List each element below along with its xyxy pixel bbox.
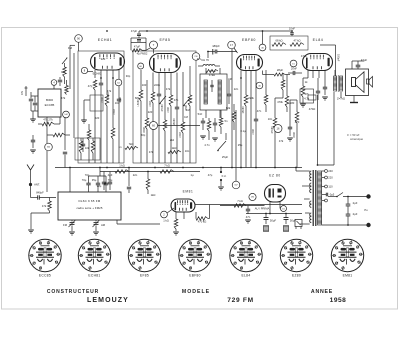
capacitor C19: [356, 65, 361, 67]
svg-text:L503: L503: [149, 101, 152, 107]
resistor R4: [105, 95, 109, 106]
node 90: [75, 35, 83, 43]
IF can boundary ECH81: [78, 51, 124, 163]
svg-text:35µ: 35µ: [92, 178, 97, 182]
svg-text:ECH81: ECH81: [88, 274, 100, 278]
svg-text:47k 27k: 47k 27k: [43, 118, 53, 122]
capacitor C33: [288, 127, 292, 129]
svg-text:47k: 47k: [107, 89, 112, 93]
hatch ground: [284, 226, 289, 232]
svg-text:Pu: Pu: [364, 208, 368, 212]
svg-text:Z=7kΩ: Z=7kΩ: [337, 97, 345, 101]
capacitor C10: [175, 107, 179, 109]
junction: [291, 30, 293, 32]
wire: [31, 95, 38, 97]
antenna junction: [29, 183, 32, 186]
switch S3: [218, 141, 226, 150]
node 304: [45, 143, 53, 151]
node 64: [115, 79, 122, 86]
wire: [252, 201, 254, 206]
svg-text:10n: 10n: [185, 149, 190, 153]
svg-text:47µF: 47µF: [131, 29, 138, 33]
svg-text:1µ: 1µ: [190, 173, 193, 177]
resistor R36: [295, 112, 299, 123]
svg-text:47µ: 47µ: [208, 173, 213, 177]
capacitor C14: [215, 50, 217, 54]
junction: [262, 30, 264, 32]
capacitor C6: [81, 144, 85, 146]
junction: [106, 167, 108, 169]
svg-text:47n: 47n: [257, 109, 262, 113]
resistor R32: [174, 219, 178, 229]
wire: [128, 168, 130, 187]
svg-text:47µF: 47µF: [134, 45, 141, 49]
ground: [218, 187, 224, 190]
wire: [263, 44, 271, 46]
capacitor C15: [254, 119, 258, 121]
wire: [152, 73, 154, 81]
wire: [64, 117, 66, 150]
wire: [207, 52, 209, 59]
resistor R33: [196, 217, 208, 221]
resistor R38: [274, 73, 285, 76]
resistor R42: [132, 49, 142, 52]
svg-text:ECC85: ECC85: [45, 103, 55, 107]
capacitor C31: [227, 94, 231, 96]
svg-text:AU / PRIMA: AU / PRIMA: [255, 207, 270, 211]
svg-text:EM81: EM81: [183, 190, 194, 194]
wire: [240, 71, 242, 79]
svg-text:304: 304: [47, 147, 50, 149]
junction: [255, 167, 257, 169]
resistor R14: [207, 121, 211, 131]
svg-text:L5083: L5083: [137, 99, 140, 107]
resistor R29: [53, 133, 65, 137]
capacitor C3: [58, 80, 62, 82]
capacitor C1: [29, 99, 33, 101]
socket EBF80: [179, 239, 211, 271]
junction: [347, 196, 349, 198]
capacitor C8: [137, 34, 141, 36]
ground: [30, 119, 36, 122]
wire top rail: [139, 30, 292, 32]
svg-text:22n: 22n: [133, 173, 138, 177]
wire: [167, 208, 174, 213]
svg-text:180: 180: [290, 101, 295, 105]
junction: [231, 167, 233, 169]
switch S2: [184, 98, 190, 105]
IF can boundary EF85: [133, 51, 196, 163]
svg-text:47n: 47n: [246, 215, 251, 219]
svg-text:70µ: 70µ: [82, 178, 87, 182]
junction: [285, 213, 287, 215]
junction: [154, 167, 156, 169]
wire: [89, 175, 107, 177]
svg-text:50µF: 50µF: [270, 219, 277, 223]
junction: [112, 77, 114, 79]
wire: [275, 97, 283, 99]
node 16: [274, 125, 282, 133]
ground: [212, 138, 218, 141]
resistor R12: [181, 122, 185, 133]
wire: [250, 71, 252, 79]
mains tap 110: [325, 185, 328, 188]
junction: [147, 171, 149, 173]
resistor R1: [65, 86, 69, 95]
junction: [265, 213, 267, 215]
small box: [90, 95, 103, 111]
junction: [202, 167, 204, 169]
capacitor C29: [346, 204, 351, 206]
tube EL84 V4: [303, 54, 333, 71]
svg-text:L503: L503: [179, 132, 182, 138]
node 15: [290, 60, 297, 67]
wire: [94, 70, 96, 78]
svg-text:7 kΩ: 7 kΩ: [164, 164, 170, 168]
tweeter: [367, 79, 369, 84]
capacitor C17: [293, 71, 295, 75]
capacitor C20: [102, 182, 106, 184]
svg-text:4µ FM52: 4µ FM52: [137, 52, 148, 56]
socket EZ80: [280, 239, 312, 271]
IF transformer T1: [200, 74, 227, 110]
svg-text:47kΩ: 47kΩ: [209, 73, 215, 77]
wire: [279, 202, 281, 209]
svg-text:50p: 50p: [141, 133, 146, 137]
svg-text:180pF: 180pF: [212, 44, 220, 48]
wire main bus: [55, 167, 302, 169]
wire: [262, 31, 264, 44]
svg-text:EL84: EL84: [242, 274, 251, 278]
wire: [73, 53, 75, 138]
svg-text:1n: 1n: [119, 145, 122, 149]
ground: [245, 220, 251, 223]
resistor R17: [264, 95, 268, 105]
ground: [28, 230, 34, 233]
svg-text:L508: L508: [252, 129, 255, 135]
capacitor C18: [316, 91, 320, 93]
wire: [328, 196, 337, 198]
resistor R5: [111, 128, 115, 139]
capacitor C2: [33, 103, 37, 105]
svg-text:7kΩ: 7kΩ: [129, 142, 134, 146]
junction: [69, 167, 71, 169]
svg-text:47µF: 47µF: [361, 58, 368, 62]
winding: [204, 80, 207, 104]
capacitor C16: [290, 33, 294, 35]
svg-text:4708: 4708: [119, 97, 122, 103]
wire: [112, 70, 114, 78]
socket EF85: [128, 239, 160, 271]
mains tap 220: [325, 176, 328, 179]
svg-text:47k: 47k: [305, 92, 310, 96]
junction: [240, 77, 242, 79]
wire: [295, 168, 297, 172]
trimmer CV2: [95, 220, 97, 222]
wire: [31, 212, 50, 214]
tube EM81 V5: [171, 199, 195, 212]
wire: [209, 205, 211, 219]
winding: [218, 80, 221, 104]
wire: [334, 70, 336, 76]
switch S4: [337, 193, 343, 197]
svg-text:4µF: 4µF: [108, 173, 113, 177]
wire: [99, 168, 101, 177]
resistor R16: [244, 95, 248, 106]
wire: [100, 92, 102, 163]
wire: [183, 212, 185, 219]
coupling box: [270, 36, 308, 50]
svg-text:47k: 47k: [61, 96, 66, 100]
wire: [118, 70, 120, 78]
svg-text:47k: 47k: [42, 204, 47, 208]
svg-text:470: 470: [295, 120, 300, 124]
svg-text:1958: 1958: [330, 297, 347, 304]
resistor R7: [139, 90, 143, 101]
resistor R15: [219, 118, 223, 127]
wire: [212, 49, 214, 55]
small box: [308, 95, 316, 100]
speaker HP: [352, 78, 356, 87]
filter cap C27: [264, 218, 269, 220]
svg-text:ANNEE: ANNEE: [311, 289, 333, 295]
speaker box: [346, 69, 369, 96]
node 60a: [138, 63, 144, 69]
resistor R23: [301, 86, 305, 97]
wire: [145, 38, 147, 50]
divider box: [300, 89, 314, 103]
wire: [231, 49, 233, 168]
wire: [317, 95, 319, 165]
svg-text:10n: 10n: [268, 117, 273, 121]
junction: [274, 167, 276, 169]
wire: [312, 71, 314, 79]
wire: [70, 44, 75, 46]
node 17: [228, 41, 236, 49]
junction: [295, 167, 297, 169]
wire: [94, 100, 96, 163]
capacitor C13: [213, 123, 217, 125]
wire: [296, 170, 310, 172]
svg-text:0µ5: 0µ5: [330, 193, 335, 197]
wire: [246, 213, 302, 215]
node 2: [161, 211, 168, 218]
svg-text:L508: L508: [101, 97, 104, 103]
svg-text:2k2: 2k2: [170, 138, 175, 142]
socket EM81: [331, 239, 363, 271]
svg-text:220: 220: [148, 110, 153, 114]
svg-text:1508: 1508: [143, 127, 146, 133]
svg-text:EBF80: EBF80: [189, 274, 201, 278]
tube EZ80 V6: [265, 185, 286, 203]
resistor R28: [42, 122, 54, 126]
svg-text:F.U.: F.U.: [222, 174, 227, 178]
resistor R25: [160, 170, 174, 174]
ground: [81, 120, 87, 123]
socket ECH81: [78, 239, 110, 271]
capacitor C34: [323, 87, 327, 89]
svg-text:CH 79: CH 79: [201, 58, 209, 62]
wire: [53, 85, 55, 89]
filter cap C28: [284, 218, 289, 220]
svg-text:100: 100: [142, 83, 147, 87]
resistor R39: [285, 96, 289, 107]
wire: [130, 38, 132, 50]
node 46b: [256, 82, 263, 89]
svg-text:82k: 82k: [226, 106, 231, 110]
resistor R24: [115, 170, 129, 174]
node 210: [192, 53, 200, 61]
resistor R37: [206, 70, 218, 73]
wire: [46, 151, 48, 192]
wire: [245, 71, 247, 79]
resistor R20: [281, 80, 285, 90]
svg-text:EL84: EL84: [313, 38, 324, 42]
wire: [164, 73, 166, 81]
wire: [106, 70, 108, 78]
svg-text:ANT.: ANT.: [34, 183, 40, 187]
mains tap 0: [325, 199, 328, 202]
svg-text:28µF: 28µF: [277, 68, 284, 72]
capacitor C5: [117, 99, 121, 101]
svg-text:47k: 47k: [279, 139, 284, 143]
svg-text:1508: 1508: [293, 132, 296, 138]
tap cap: [326, 193, 327, 197]
fuse F1: [220, 171, 222, 173]
junction: [146, 30, 148, 32]
wire: [318, 71, 320, 79]
resistor R2: [63, 67, 67, 77]
node 16b: [281, 206, 287, 212]
capacitor C32: [63, 152, 67, 154]
svg-text:47083: 47083: [161, 104, 164, 112]
svg-text:68 kΩ: 68 kΩ: [275, 39, 282, 43]
svg-text:0.1µ: 0.1µ: [240, 129, 246, 133]
svg-text:25µF: 25µF: [222, 155, 229, 159]
hatch ground: [264, 226, 269, 232]
svg-text:110: 110: [328, 185, 333, 189]
svg-text:2µF: 2µF: [353, 201, 358, 205]
wire: [307, 71, 309, 79]
ground: [200, 136, 206, 139]
svg-text:20nF: 20nF: [291, 67, 297, 71]
svg-text:DL6C 9 65 FM: DL6C 9 65 FM: [79, 199, 101, 203]
capacitor C23: [38, 195, 40, 199]
node 7: [150, 41, 158, 49]
svg-text:25µ: 25µ: [238, 143, 243, 147]
svg-text:47n: 47n: [174, 98, 179, 102]
svg-text:220: 220: [101, 57, 106, 61]
FM trimmer arrow: [62, 58, 67, 64]
svg-text:470 kΩ: 470 kΩ: [198, 220, 207, 224]
choke CH79: [203, 65, 215, 67]
mains plug box: [295, 220, 302, 227]
svg-text:10n: 10n: [115, 101, 120, 105]
tube EF85 V2: [150, 54, 181, 73]
svg-text:1 kΩ: 1 kΩ: [119, 164, 125, 168]
wire: [131, 42, 146, 44]
svg-text:470k: 470k: [277, 100, 283, 104]
capacitor C25: [31, 140, 35, 142]
ground: [173, 232, 179, 235]
wire: [235, 110, 237, 181]
capacitor C11: [210, 85, 213, 86]
resistor R27: [48, 201, 52, 211]
svg-text:70p: 70p: [85, 173, 90, 177]
wire: [59, 117, 61, 124]
wire: [88, 71, 93, 73]
wire: [100, 70, 102, 78]
svg-text:15083: 15083: [242, 106, 245, 114]
frame antenna box: [58, 192, 121, 220]
ground: [350, 102, 358, 104]
wire: [30, 186, 32, 198]
svg-text:220p: 220p: [154, 83, 160, 87]
antenna: [27, 165, 31, 171]
node 60: [150, 122, 158, 130]
wire: [352, 60, 364, 62]
svg-text:317: 317: [234, 185, 237, 187]
junction: [269, 213, 271, 215]
resistor R13: [188, 95, 192, 106]
wire bus 2: [100, 171, 200, 173]
svg-text:LEMOUZY: LEMOUZY: [87, 297, 129, 304]
oscillator box: [75, 138, 100, 160]
wire: [176, 73, 178, 81]
svg-text:EF85: EF85: [140, 274, 149, 278]
svg-text:4.7n: 4.7n: [204, 143, 210, 147]
wire: [353, 96, 355, 103]
ground: [300, 104, 306, 107]
svg-text:840pF: 840pF: [36, 191, 44, 195]
svg-text:10k: 10k: [85, 146, 90, 150]
switch S1: [160, 96, 166, 103]
capacitor C30: [346, 214, 351, 216]
svg-text:22n: 22n: [234, 87, 239, 91]
resistor R40: [125, 146, 138, 149]
terminal: [366, 223, 370, 227]
svg-text:1 kΩ: 1 kΩ: [163, 219, 169, 223]
capacitor C4: [99, 83, 103, 85]
svg-text:L508: L508: [167, 107, 170, 113]
wire: [158, 73, 160, 81]
wire: [170, 73, 172, 81]
junction: [100, 77, 102, 79]
junction: [220, 167, 222, 169]
resistor R35: [232, 112, 236, 122]
svg-text:47n: 47n: [197, 57, 202, 61]
wire: [158, 125, 200, 127]
svg-text:EF85: EF85: [160, 38, 171, 42]
resistor R11: [169, 95, 173, 106]
svg-text:15083: 15083: [173, 118, 176, 126]
wire: [31, 110, 38, 112]
svg-text:290: 290: [251, 197, 254, 199]
socket EL84: [230, 239, 262, 271]
wire: [131, 37, 146, 39]
resistor R21: [273, 118, 277, 129]
svg-text:7 kΩ: 7 kΩ: [237, 199, 243, 203]
svg-text:5n: 5n: [225, 119, 228, 123]
wire: [78, 42, 80, 51]
svg-text:ECH81: ECH81: [93, 72, 102, 76]
wire: [116, 220, 118, 224]
resistor R18: [272, 43, 286, 47]
junction: [347, 224, 349, 226]
capacitor C24a: [86, 183, 90, 185]
node 8: [81, 67, 87, 73]
wire: [153, 49, 155, 54]
